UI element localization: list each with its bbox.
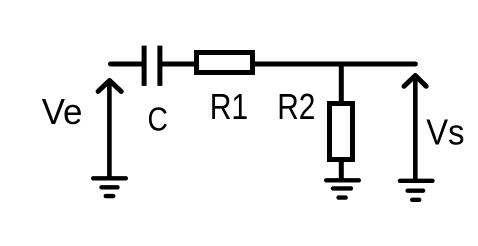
svg-text:R2: R2 xyxy=(277,86,315,127)
svg-text:R1: R1 xyxy=(210,86,249,127)
voltage arrow Ve xyxy=(98,80,121,178)
ground (below Vs arrow) xyxy=(400,181,433,200)
label Ve xyxy=(42,91,83,132)
ground (below Ve arrow) xyxy=(93,178,126,196)
voltage arrow Vs xyxy=(404,76,426,181)
resistor R1 xyxy=(197,53,253,73)
label Vs xyxy=(426,111,464,152)
wire: input node to capacitor left plate xyxy=(111,62,143,67)
capacitor C xyxy=(144,46,160,86)
wire: resistor R1 to output node xyxy=(255,62,415,67)
label R2 xyxy=(277,86,315,127)
svg-text:Ve: Ve xyxy=(42,91,83,132)
wire: junction down to resistor R2 xyxy=(339,64,344,102)
svg-text:Vs: Vs xyxy=(426,111,464,152)
ground (below R2) xyxy=(326,180,359,197)
wire: resistor R2 to ground xyxy=(339,160,344,180)
label C xyxy=(148,100,168,137)
svg-text:C: C xyxy=(148,100,168,137)
resistor R2 xyxy=(330,104,353,160)
wire: capacitor right plate to resistor R1 xyxy=(162,62,195,67)
label R1 xyxy=(210,86,249,127)
